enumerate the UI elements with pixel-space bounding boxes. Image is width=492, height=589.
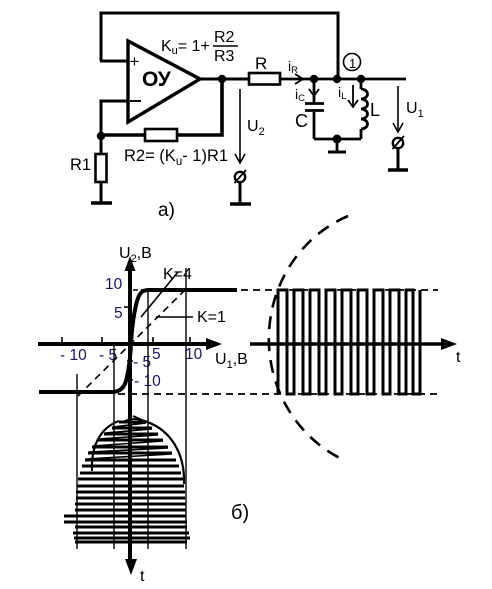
- K=1 dashed diagonal: [78, 290, 185, 396]
- svg-text:R2: R2: [214, 29, 235, 46]
- wire R to LC tank: [280, 78, 406, 81]
- ground under R1: [91, 201, 112, 204]
- ground under LC: [328, 139, 346, 152]
- svg-text:R3: R3: [214, 48, 235, 65]
- K=1 leader line: [156, 316, 193, 318]
- svg-text:10: 10: [185, 346, 203, 363]
- svg-text:- 10: - 10: [60, 347, 87, 364]
- svg-text:C: C: [295, 111, 308, 131]
- transfer curve S: [39, 290, 150, 392]
- arrow U1: [393, 86, 424, 132]
- K=4 thin line: [141, 272, 178, 317]
- svg-text:а): а): [158, 200, 175, 221]
- x-axis U1: [38, 338, 222, 350]
- vertical ref line x77: [76, 374, 78, 549]
- svg-text:R1: R1: [70, 156, 91, 174]
- vertical ref line x114: [113, 344, 115, 549]
- wire top feedback from + input to node 1: [101, 13, 338, 79]
- oscillation spiral start arrow: [121, 419, 141, 423]
- node R2/R1 junction: [97, 132, 105, 140]
- wire - input stub and drop to R2 node: [101, 101, 128, 136]
- square wave U1: [278, 290, 420, 394]
- wire + input stub: [100, 60, 128, 63]
- dashed tick at +10 level: [133, 289, 145, 291]
- y ticks: [124, 307, 133, 380]
- arrow U2: [235, 89, 265, 163]
- svg-text:t: t: [140, 568, 145, 585]
- svg-text:+: +: [130, 52, 140, 71]
- oscillation envelope lines: [64, 422, 190, 542]
- t axis right: [250, 338, 457, 350]
- svg-text:ОУ: ОУ: [142, 68, 172, 91]
- svg-text:5: 5: [152, 346, 161, 363]
- svg-text:б): б): [231, 502, 249, 524]
- svg-text:K=1: K=1: [197, 309, 226, 326]
- formula Ku = 1 + R2/R3: [161, 29, 238, 65]
- wire LC bottom: [314, 138, 361, 141]
- resistor R1: [96, 136, 107, 203]
- x ticks: [62, 337, 190, 344]
- dashed +10 line to wave: [241, 289, 438, 291]
- svg-text:K=4: K=4: [163, 266, 192, 283]
- resistor R: [249, 54, 280, 85]
- terminal U2: [230, 170, 251, 204]
- y-axis U2: [125, 256, 138, 575]
- vertical ref line x148: [147, 288, 149, 549]
- current arrow iR: [288, 58, 303, 84]
- inductor L: [361, 79, 368, 139]
- oscillation envelope dome outline left: [92, 421, 119, 471]
- node L junction: [357, 75, 365, 83]
- node LC ground junction: [333, 135, 342, 144]
- dashed magnifier arc: [269, 216, 348, 461]
- svg-text:R: R: [255, 54, 267, 73]
- wire op-amp output: [200, 78, 249, 81]
- oscillation spiral diagonals: [86, 423, 172, 459]
- svg-text:5: 5: [114, 305, 123, 322]
- node iC junction: [310, 75, 318, 83]
- resistor R2: [101, 129, 177, 141]
- node feedback junction: [333, 75, 341, 83]
- vertical ref line x186: [185, 268, 187, 549]
- current arrow iL: [338, 84, 358, 107]
- terminal U1: [388, 136, 408, 170]
- op-amp U1 (OU): [128, 41, 200, 122]
- svg-text:Ku= 1+: Ku= 1+: [161, 38, 210, 57]
- svg-text:10: 10: [105, 276, 123, 293]
- node 1 circled label: [344, 54, 361, 72]
- svg-text:1: 1: [349, 56, 356, 71]
- transfer curve saturation +10: [150, 288, 237, 292]
- wire feedback vertical output to R2: [177, 79, 222, 135]
- current arrow iC: [295, 83, 319, 104]
- oscillation envelope dome outline right: [141, 420, 184, 484]
- capacitor C: [305, 79, 324, 139]
- node output junction: [218, 75, 226, 83]
- dashed -10 line to wave: [118, 393, 438, 395]
- svg-text:t: t: [456, 349, 461, 366]
- svg-text:L: L: [370, 100, 380, 120]
